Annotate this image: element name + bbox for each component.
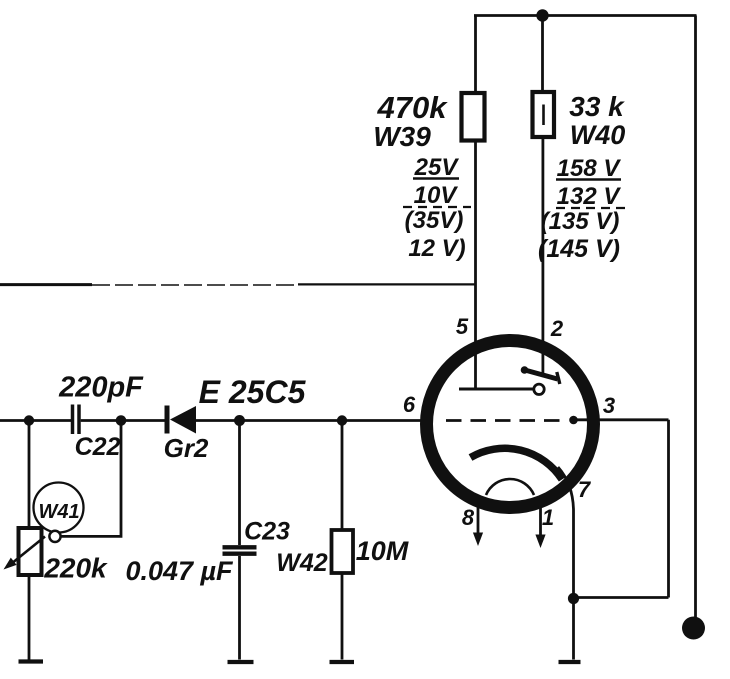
svg-text:5: 5 <box>456 314 469 339</box>
resistor W42 10M <box>332 530 354 573</box>
svg-text:2: 2 <box>550 316 564 341</box>
cathode dome arc <box>486 479 534 495</box>
svg-text:10V: 10V <box>414 182 459 209</box>
target screen thick arc <box>471 448 563 479</box>
svg-text:C22: C22 <box>75 433 121 461</box>
svg-text:8: 8 <box>462 505 475 530</box>
wire pot to ground <box>28 575 31 660</box>
svg-text:W42: W42 <box>276 549 328 577</box>
svg-text:10M: 10M <box>356 536 409 566</box>
svg-text:3: 3 <box>603 393 615 418</box>
svg-text:158 V: 158 V <box>557 155 622 182</box>
svg-text:7: 7 <box>578 477 592 502</box>
svg-text:470k: 470k <box>377 90 449 125</box>
svg-text:0.047 µF: 0.047 µF <box>125 556 234 586</box>
ground bar W42 <box>330 660 355 664</box>
resistor W39 470k <box>462 93 485 141</box>
junction pin7 node <box>568 593 579 604</box>
diode Gr2 triangle <box>170 406 196 434</box>
electrode left tick <box>521 366 529 374</box>
wire left drop to R W39 <box>474 16 477 94</box>
tube envelope U (EM-type indicator) <box>427 341 594 508</box>
junction node D <box>337 415 347 425</box>
grid bar (pin 5) <box>459 388 533 391</box>
heater pin 1 arrowhead <box>535 535 545 549</box>
wire pin 3 down <box>667 420 670 598</box>
divider rule left thick part <box>0 283 92 286</box>
wire mid drop to R W40 <box>541 16 544 93</box>
ground bar right <box>559 660 581 664</box>
underline 158V <box>556 178 621 180</box>
ground bar pot <box>19 659 44 663</box>
wire C22 to diode <box>81 419 165 422</box>
potentiometer W41 body <box>19 528 42 575</box>
svg-text:W39: W39 <box>373 121 431 152</box>
wiper wire to node B <box>61 423 122 536</box>
potentiometer arrow shaft <box>9 537 46 567</box>
wire node A down to pot <box>28 421 31 529</box>
dashed underline 132V <box>556 207 625 209</box>
svg-text:C23: C23 <box>244 518 290 546</box>
main signal wire left <box>0 419 71 422</box>
svg-text:(135 V): (135 V) <box>541 208 620 235</box>
junction top node <box>536 9 548 21</box>
capacitor C22 plate right <box>77 405 81 435</box>
svg-text:220pF: 220pF <box>58 372 144 404</box>
svg-text:1: 1 <box>542 505 554 530</box>
svg-text:12 V): 12 V) <box>408 235 465 262</box>
svg-text:220k: 220k <box>43 553 108 584</box>
heater pin 8 arrowhead <box>473 533 483 547</box>
dashed axis inside tube <box>446 419 568 422</box>
wire pin 7 curve <box>558 467 574 594</box>
svg-text:33 k: 33 k <box>569 91 625 122</box>
dashed underline 10V <box>403 206 471 208</box>
svg-text:Gr2: Gr2 <box>164 433 209 463</box>
capacitor C23 plate top <box>223 545 257 549</box>
resistor W40 inner mark <box>542 105 545 126</box>
heater pin 1 wire <box>539 507 542 536</box>
underline 25V <box>413 177 459 179</box>
svg-text:W41: W41 <box>38 501 79 523</box>
divider rule faint middle <box>92 284 298 286</box>
potentiometer arrowhead <box>4 558 17 570</box>
wire node to ground <box>572 599 575 660</box>
heater pin 8 wire <box>477 505 480 534</box>
resistor W40 33k <box>533 92 555 137</box>
junction node A <box>24 415 34 425</box>
wire node C down to C23 <box>238 421 241 546</box>
wiper contact circle <box>49 531 60 542</box>
svg-text:25V: 25V <box>414 154 460 181</box>
wire node D down to W42 <box>341 421 344 531</box>
svg-text:W40: W40 <box>570 120 626 150</box>
W41 knob circle <box>34 483 84 533</box>
ground bar C23 <box>228 660 254 664</box>
junction node C <box>234 415 245 426</box>
divider rule right part <box>298 283 476 285</box>
wire W39 to tube pin 5 <box>474 141 477 390</box>
wire top bus <box>474 14 697 17</box>
svg-text:(35V): (35V) <box>405 207 464 234</box>
wire W42 to ground <box>341 573 344 660</box>
terminal big dot <box>682 617 705 640</box>
wire return to pin 7 node <box>574 596 669 599</box>
wire pin 3 out right <box>574 418 669 421</box>
wire diode to tube pin 6 <box>196 419 421 422</box>
electrode right tick <box>557 372 560 384</box>
capacitor C23 plate bottom <box>223 552 257 556</box>
deflection electrode (pin 2) <box>523 370 558 380</box>
wire W40 to tube pin 2 <box>542 137 545 377</box>
junction node B <box>116 415 127 426</box>
diode Gr2 cathode bar <box>165 406 170 434</box>
node on axis <box>569 416 578 425</box>
grid end circle <box>534 384 544 394</box>
svg-text:(145 V): (145 V) <box>538 235 620 263</box>
svg-text:132 V: 132 V <box>557 183 622 210</box>
wire right vertical drop <box>694 16 697 619</box>
wire C23 to ground <box>238 556 241 660</box>
svg-text:E 25C5: E 25C5 <box>199 374 307 410</box>
svg-text:6: 6 <box>403 392 416 417</box>
capacitor C22 plate left <box>71 405 75 435</box>
